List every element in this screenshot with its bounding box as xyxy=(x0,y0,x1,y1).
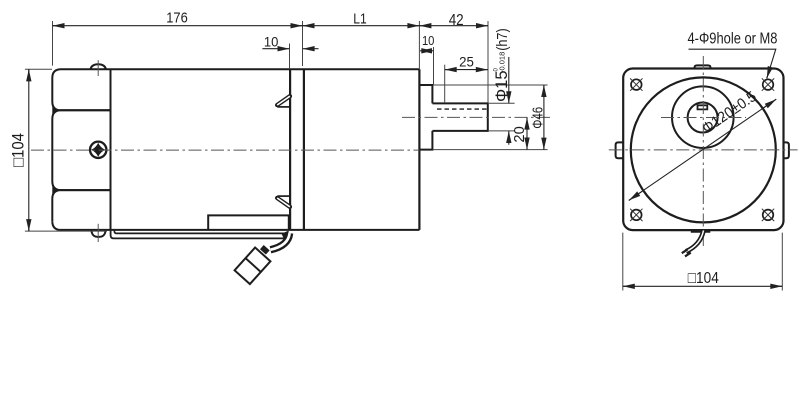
svg-text:□104: □104 xyxy=(688,270,719,287)
svg-text:4-Φ9hole or M8: 4-Φ9hole or M8 xyxy=(688,31,778,48)
svg-text:10: 10 xyxy=(422,33,435,48)
svg-text:Φ120±0.5: Φ120±0.5 xyxy=(699,88,760,137)
svg-text:Φ46: Φ46 xyxy=(530,107,546,129)
svg-text:(h7): (h7) xyxy=(494,28,511,50)
svg-text:10: 10 xyxy=(264,33,279,49)
svg-text:□104: □104 xyxy=(9,133,27,167)
svg-text:176: 176 xyxy=(166,11,188,27)
svg-text:L1: L1 xyxy=(353,11,367,28)
svg-text:Φ15: Φ15 xyxy=(493,70,511,102)
svg-text:25: 25 xyxy=(459,54,474,69)
svg-text:20: 20 xyxy=(512,126,528,142)
svg-text:42: 42 xyxy=(449,12,464,29)
svg-text:-0.018: -0.018 xyxy=(498,52,507,73)
